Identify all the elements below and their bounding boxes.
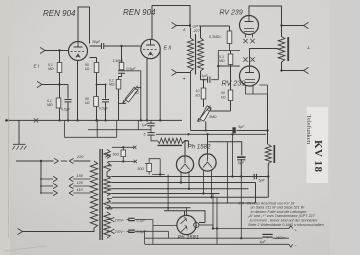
node V4 grid (217, 65, 219, 67)
svg-text:1,5MΩ: 1,5MΩ (113, 59, 124, 63)
smoothing choke L3 with core (158, 138, 185, 143)
wire T3 tap from V4 anode side (267, 94, 269, 131)
T1 secondary winding W1 (104, 150, 111, 159)
transformer T2 core (195, 34, 197, 75)
tube V4 RV 239 (240, 66, 260, 86)
vertical HT drop x241 to output rail (240, 177, 242, 239)
wire V6 side cap to HT (199, 224, 213, 226)
node junction C1-R3 (120, 45, 122, 47)
terminal E I input bottom (37, 81, 44, 87)
svg-text:110: 110 (77, 188, 84, 192)
svg-text:150: 150 (77, 174, 84, 178)
svg-text:A: A (182, 28, 186, 32)
V3 filament pins and plugs (246, 34, 253, 38)
rail from choke to rectifier anodes (184, 141, 189, 147)
svg-text:kΩ: kΩ (221, 96, 226, 100)
svg-text:MΩ: MΩ (48, 67, 54, 71)
transformer T1 core (100, 149, 102, 240)
svg-text:4µF: 4µF (260, 240, 267, 244)
plug W1 tap (105, 153, 111, 157)
wire R12 top link (145, 159, 160, 164)
terminal E I input top (40, 47, 47, 53)
resistor R10 10 kOhm (203, 80, 205, 88)
svg-text:kΩ: kΩ (85, 67, 90, 71)
wire V3 anode to output transformer (249, 6, 282, 37)
selector plugs 125 (41, 185, 53, 187)
V5b legs to bus (204, 171, 212, 198)
output rail A y238 (145, 237, 290, 239)
wire pot bottom to rail (205, 122, 207, 131)
svg-text:RV 239: RV 239 (220, 10, 243, 17)
wire V2 anode to top rail to GPT (152, 6, 190, 40)
capacitor C9 5uF (254, 174, 256, 179)
node choke top (266, 129, 268, 131)
wires 270V caps to V6 filament (135, 220, 178, 226)
svg-text:Telefunken: Telefunken (305, 115, 312, 145)
terminal mains bottom (18, 228, 25, 234)
vertical drop x227 box to rail (226, 142, 228, 203)
transformer T2 secondary winding (200, 26, 202, 38)
svg-text:260V=: 260V= (275, 236, 286, 240)
V6 top wire (186, 208, 188, 216)
mains input wire 220 (16, 160, 54, 162)
capacitor C11 0,1uF (127, 230, 130, 232)
wire W1 link y147.3 (112, 146, 134, 148)
wire C4 to vertical x140.8 (125, 71, 141, 121)
svg-text:270V~: 270V~ (114, 230, 125, 234)
capacitor C3 0,5uF (cathode) (105, 85, 107, 99)
wire 270V bottom cap to rail (135, 231, 169, 238)
Telefunken KV 18 badge background (307, 107, 329, 183)
svg-text:MΩ: MΩ (47, 103, 53, 107)
wire input to V1 grid (45, 50, 69, 52)
ground symbol (13, 120, 26, 144)
resistor R8 0,3 MOhm (230, 51, 232, 55)
resistor R12 50 Ohm (147, 163, 152, 171)
svg-text:0,3MΩ≈: 0,3MΩ≈ (209, 35, 221, 39)
svg-text:0,5µF: 0,5µF (127, 67, 137, 71)
svg-text:10: 10 (196, 89, 200, 93)
wire V4 grid network (201, 79, 207, 81)
svg-text:50: 50 (221, 91, 225, 95)
svg-text:5: 5 (144, 133, 146, 137)
tube V2 REN 904 (141, 39, 160, 58)
ground bus rail (5, 119, 182, 121)
transformer T2 GPT227 primary winding (190, 28, 192, 39)
mains transformer T1 primary (90, 161, 97, 228)
wire R1 chain vertical (60, 51, 78, 121)
wire C8 down to rail (240, 159, 242, 176)
junction cathode bus (140, 119, 142, 121)
terminal + output (289, 226, 293, 229)
rectifier tube V5a Ph1582 (176, 156, 193, 173)
W3 taps (107, 183, 112, 194)
heater bus line y203 (112, 183, 256, 204)
svg-text:+: + (183, 77, 186, 83)
heater bus line y207 (105, 207, 190, 209)
heater bus line y193 (112, 193, 220, 195)
node R1-R2-C2 crossing (58, 83, 60, 85)
svg-text:50Ω: 50Ω (113, 152, 120, 156)
junction dots rectifier rail (187, 133, 189, 135)
wire rect box to C8 (209, 142, 242, 156)
wire R12 bottom to rail (149, 171, 165, 174)
T1 secondary winding W2 (104, 162, 111, 172)
vertical bus-to-rail x138.3 (137, 120, 139, 129)
resistor R6 0,1 MOhm (116, 80, 121, 90)
wire R5 to R6 jog (119, 73, 122, 79)
resistor R11 50 Ohm (121, 150, 126, 157)
output transformer T3 core bar (287, 37, 289, 61)
resistor R9 50 kOhm (230, 66, 232, 90)
selector plugs 150 (41, 178, 53, 180)
heater bus line y197 (112, 196, 268, 198)
svg-text:227: 227 (193, 28, 201, 33)
rectifier tube V5b Ph1582 (199, 154, 216, 171)
svg-text:5µF: 5µF (238, 125, 245, 129)
plug X on bus left end (6, 119, 9, 122)
svg-text:kΩ: kΩ (196, 94, 201, 98)
choke L2 field coil (267, 131, 269, 145)
T1 secondary winding W4 (104, 199, 111, 210)
svg-text:3MΩ: 3MΩ (209, 115, 217, 119)
potentiometer P2 3 MOhm (203, 99, 205, 107)
tube V3 RV 239 (240, 16, 259, 35)
wire R9 bottom to wiper (211, 110, 231, 112)
pot P2 wiper terminal (208, 108, 211, 111)
wire V2 cathode down to bus (146, 59, 148, 121)
capacitor C12 4uF (262, 233, 272, 235)
wire V2 side to bus (159, 50, 161, 121)
wire V5 anodes up to rail (185, 134, 208, 156)
wire V4 anode to T3 tap (250, 49, 279, 67)
wire C1 to V2 grid (90, 45, 141, 47)
node T3 top (280, 24, 282, 26)
selector plugs 110 (41, 192, 53, 194)
capacitor C8 5uF reservoir (237, 156, 245, 158)
svg-text:1µF: 1µF (202, 74, 209, 78)
T1 secondary winding W3 HT (104, 176, 111, 196)
node T3 bottom (280, 69, 282, 71)
svg-text:5µF: 5µF (259, 179, 266, 183)
resistor R3 50 kOhm (V1 anode load) (96, 58, 98, 121)
node R3-R4 link (96, 84, 98, 86)
svg-text:0,5µF: 0,5µF (61, 108, 71, 112)
node input-R1 (58, 49, 60, 51)
node A (189, 24, 191, 26)
svg-text:0,1µF: 0,1µF (137, 218, 147, 222)
terminal - output (289, 244, 293, 247)
wire V1 anode to top rail (78, 7, 90, 44)
W5 taps with plugs (107, 219, 110, 221)
tube V6 Ph 1581 (177, 215, 196, 234)
terminal speaker bottom (282, 70, 304, 72)
wire R3 top to anode rail (90, 57, 97, 59)
resistor R2 0,1 MOhm (56, 98, 61, 108)
rail y176 heater/HT (112, 176, 268, 178)
svg-text:Seite 2 Widerstände 0,1MΩ u hi: Seite 2 Widerstände 0,1MΩ u hinzuzuschal… (248, 223, 324, 227)
svg-text:220: 220 (76, 155, 84, 159)
terminal A to transformer (172, 22, 179, 28)
V6 side cap (194, 222, 199, 227)
vertical drop x213 to bottom (212, 194, 214, 229)
wire V4 filament loop (246, 85, 268, 95)
svg-text:270V~: 270V~ (114, 218, 125, 222)
svg-text:kΩ: kΩ (85, 101, 90, 105)
vertical drop x232 from rail (232, 134, 234, 176)
junction dots on bus (58, 119, 60, 121)
terminal E II lower with + (172, 69, 179, 75)
wire choke bottom down (267, 164, 269, 198)
capacitor C5b 5uF (cathode bypass) (147, 133, 154, 136)
svg-text:MΩ: MΩ (219, 59, 225, 63)
wire faint left page edge (8, 56, 10, 238)
rail C7 to choke node (237, 130, 269, 132)
wire pot top to vertical (137, 87, 141, 89)
svg-text:kΩ: kΩ (135, 91, 140, 95)
capacitor C7 5uF (output coupling) (232, 127, 235, 133)
svg-text:1µF: 1µF (142, 123, 149, 127)
svg-text:RV 239: RV 239 (222, 79, 246, 88)
svg-text:REN 904: REN 904 (123, 8, 156, 17)
heater return box under bus (64, 120, 116, 137)
wire faint bottom-left crease (4, 246, 46, 251)
vertical heater drop x168 (167, 175, 169, 211)
wire HT output rail y228 (213, 225, 289, 229)
wire T2 secondary top to R7 (201, 26, 230, 31)
T1 secondary winding W5 HV (104, 212, 111, 238)
capacitor C2 0,5uF (67, 85, 69, 99)
capacitor C4 0,5uF (118, 71, 125, 74)
choke L2 core bar (273, 145, 275, 163)
wire R8 to V4 grid (218, 65, 240, 67)
capacitor C5 1uF (147, 123, 154, 126)
V5a legs to bus (181, 173, 189, 189)
resistor R7 0,3 MOhm (227, 31, 232, 44)
output rail B y244 (145, 243, 289, 245)
capacitor C10 0,1uF (127, 219, 130, 221)
capacitor C6 1uF (grid V4) (208, 77, 210, 83)
vertical x152.9 to bottom rail (152, 226, 154, 245)
wire R7 to V3 grid node (218, 44, 240, 51)
svg-text:50Ω: 50Ω (138, 167, 145, 171)
plug connector on ground bus (34, 118, 38, 122)
wire rectifier output rail (156, 133, 266, 135)
svg-text:MΩ: MΩ (109, 83, 115, 87)
tube V1 REN 904 (69, 42, 88, 61)
output transformer T3 winding (281, 26, 283, 37)
vertical x144.5 cap wire to rails (144, 231, 146, 244)
svg-text:0,5µF: 0,5µF (99, 107, 109, 111)
potentiometer P1 1,5 kOhm (125, 87, 138, 102)
T1 primary bottom lead (23, 228, 95, 232)
voltage selector column (40, 161, 42, 193)
wire W1 link y161.4 (108, 160, 135, 162)
heater bus line y188 (112, 188, 249, 190)
wire input2 to C2 (42, 84, 68, 86)
mains plug pair with link (54, 158, 58, 163)
svg-text:E I: E I (34, 64, 40, 69)
resistor R4 50 kOhm (94, 97, 99, 107)
wire pot bottom to R6 line (119, 103, 126, 105)
svg-text:KV 18: KV 18 (312, 140, 324, 173)
wire R9 down to pot node (230, 101, 232, 112)
wire E II return down to cathode rail (190, 73, 192, 131)
sub-rail y129.7 under bus (88, 129, 151, 131)
node secondary to R10 (203, 79, 205, 81)
svg-text:E II: E II (164, 46, 172, 52)
V6 anode wire loop (164, 211, 205, 223)
rail cathode to C7 (191, 130, 233, 132)
vertical drop x217 to bottom (216, 197, 218, 244)
svg-text:30µF: 30µF (92, 40, 101, 44)
capacitor C1 30uF coupling (102, 43, 104, 49)
svg-text:REN 904: REN 904 (43, 9, 76, 18)
heater bus line y182 (112, 182, 256, 184)
wire grid-leak link (97, 84, 106, 86)
resistor R1 0,1 MOhm (57, 63, 62, 73)
resistor R5 1,5 MOhm (grid leak V2) (121, 46, 123, 63)
terminal speaker top (282, 25, 304, 27)
svg-text:125: 125 (77, 181, 84, 185)
vertical bus-to-rail x97 (96, 120, 98, 137)
node C8-rail (240, 175, 242, 177)
junction choke-C9 rail (267, 175, 269, 177)
svg-text:L: L (308, 45, 311, 50)
